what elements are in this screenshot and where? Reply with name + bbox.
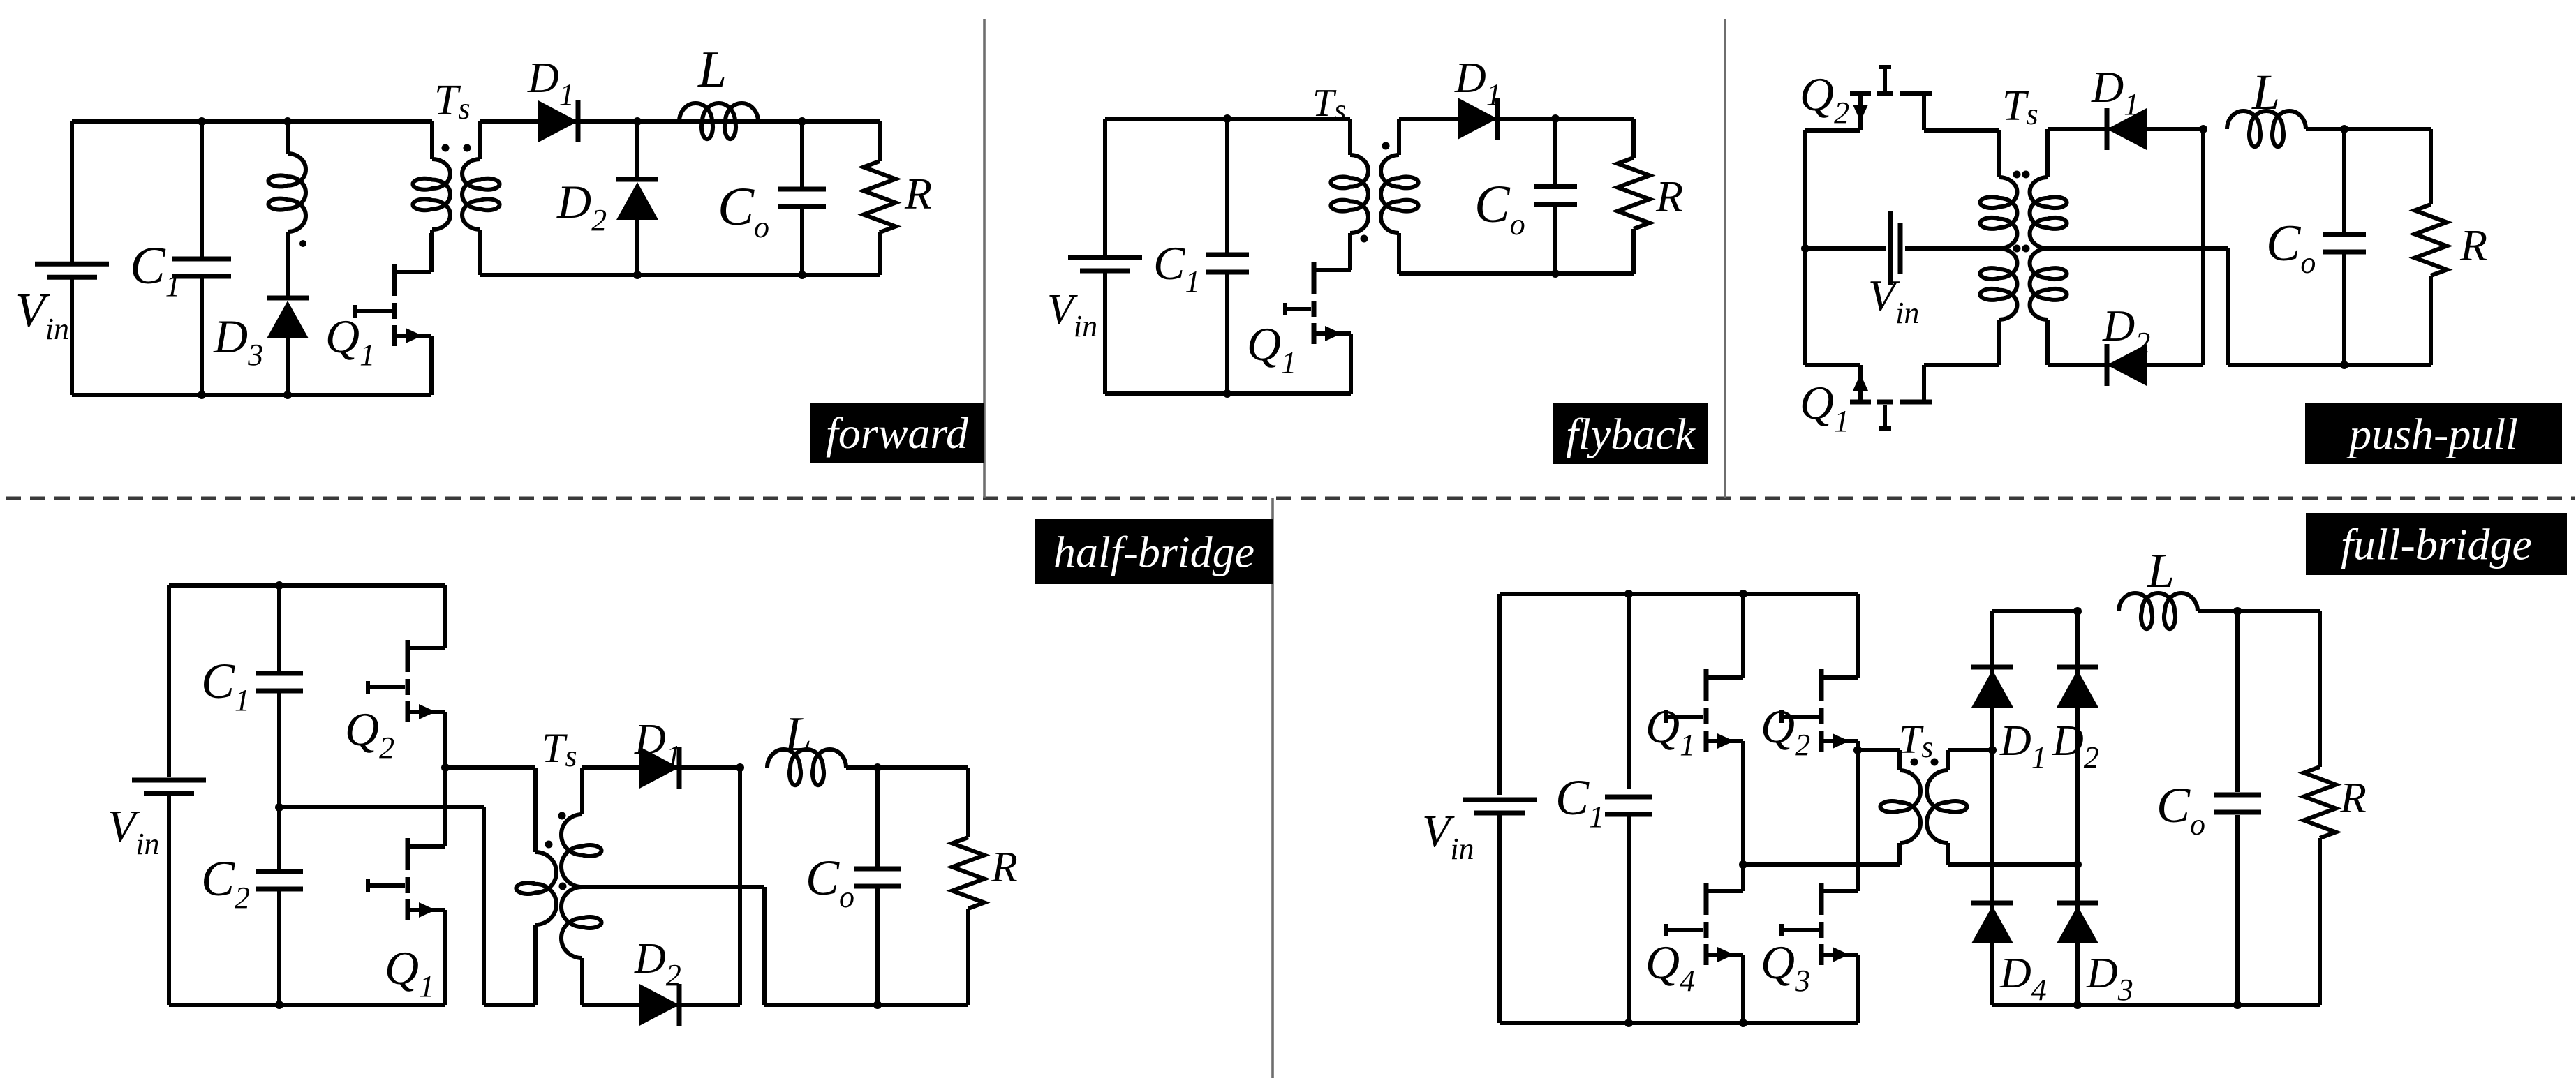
svg-text:Q1: Q1 — [1645, 700, 1695, 762]
svg-text:Q2: Q2 — [1761, 700, 1810, 762]
svg-text:Co: Co — [1474, 175, 1525, 241]
svg-text:L: L — [784, 708, 812, 761]
svg-text:push-pull: push-pull — [2346, 410, 2518, 459]
svg-text:Co: Co — [2156, 777, 2205, 842]
svg-text:Vin: Vin — [1868, 271, 1919, 330]
svg-text:Q1: Q1 — [385, 941, 434, 1003]
svg-text:C1: C1 — [130, 237, 181, 303]
svg-text:Ts: Ts — [434, 77, 471, 126]
svg-text:D2: D2 — [634, 935, 681, 992]
svg-text:Ts: Ts — [542, 725, 577, 773]
svg-text:flyback: flyback — [1566, 410, 1696, 459]
svg-text:forward: forward — [826, 408, 969, 458]
svg-text:Co: Co — [718, 176, 769, 244]
svg-text:R: R — [904, 169, 932, 218]
svg-text:R: R — [2339, 775, 2367, 822]
svg-text:Co: Co — [806, 850, 854, 914]
svg-text:C1: C1 — [1555, 770, 1604, 834]
svg-text:Co: Co — [2266, 215, 2316, 280]
svg-text:Vin: Vin — [1047, 286, 1097, 343]
svg-text:C2: C2 — [201, 851, 250, 915]
svg-text:C1: C1 — [1153, 237, 1200, 299]
svg-text:R: R — [991, 844, 1018, 891]
svg-text:Q3: Q3 — [1761, 936, 1810, 998]
svg-text:Vin: Vin — [1422, 806, 1474, 866]
svg-text:L: L — [2147, 544, 2175, 598]
svg-text:Vin: Vin — [108, 801, 160, 861]
svg-text:Q2: Q2 — [345, 703, 394, 765]
svg-text:D3: D3 — [213, 310, 263, 372]
svg-text:Ts: Ts — [1312, 82, 1346, 127]
svg-text:L: L — [697, 41, 727, 98]
svg-text:L: L — [2251, 64, 2280, 120]
svg-text:D1: D1 — [2091, 62, 2139, 121]
svg-text:R: R — [1655, 172, 1683, 221]
svg-text:C1: C1 — [201, 653, 250, 717]
svg-text:Q1: Q1 — [325, 310, 375, 372]
svg-text:R: R — [2459, 221, 2487, 270]
svg-text:Q4: Q4 — [1645, 936, 1695, 998]
svg-text:D2: D2 — [556, 175, 607, 237]
svg-text:Q1: Q1 — [1247, 318, 1296, 380]
svg-text:Vin: Vin — [15, 284, 69, 346]
svg-text:Q2: Q2 — [1800, 68, 1849, 130]
svg-text:half-bridge: half-bridge — [1053, 528, 1254, 577]
svg-text:D1: D1 — [527, 54, 575, 112]
svg-text:D4: D4 — [1999, 950, 2047, 1007]
svg-text:D1: D1 — [1999, 717, 2047, 775]
svg-text:D3: D3 — [2086, 950, 2133, 1007]
svg-text:Q1: Q1 — [1800, 376, 1849, 438]
svg-text:full-bridge: full-bridge — [2341, 520, 2532, 569]
svg-text:D2: D2 — [2052, 717, 2099, 775]
svg-text:Ts: Ts — [1899, 717, 1933, 764]
svg-text:Ts: Ts — [2002, 82, 2038, 131]
